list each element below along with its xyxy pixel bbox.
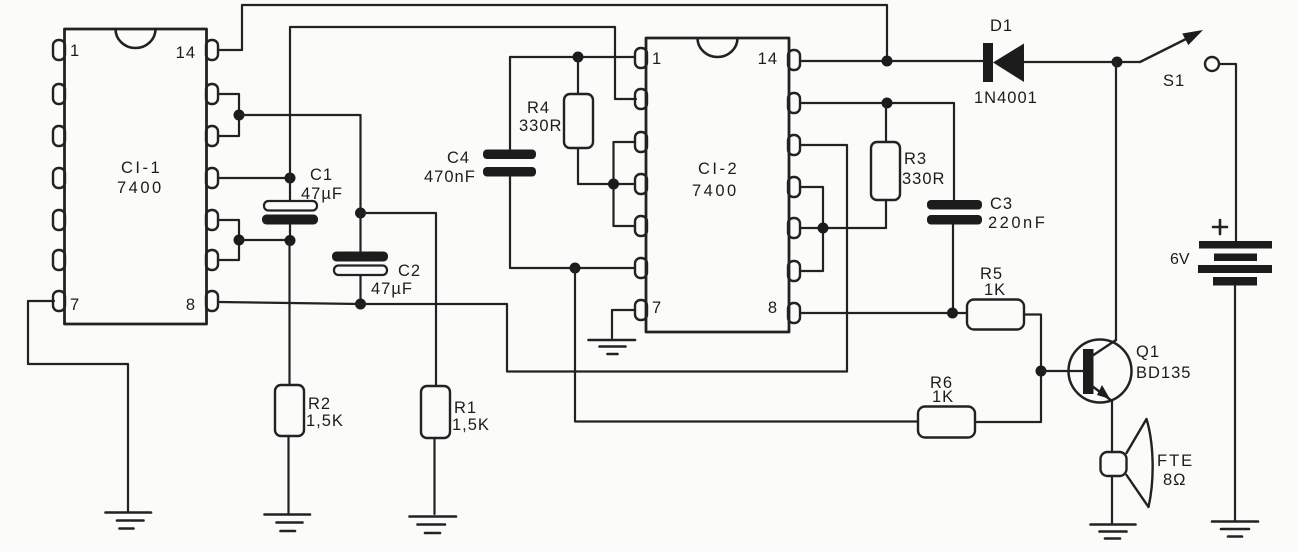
wire: C2 node right and down to R1 [361,213,437,386]
node: C2 top dot [355,208,366,219]
ground (battery) [1212,522,1258,537]
svg-text:330R: 330R [902,170,945,188]
wire: R3 top lead [885,103,887,142]
CI-2 pin 6 [635,258,647,278]
wire: R5 right to base node [1024,315,1041,372]
CI-2 pin 7 [635,300,647,320]
wire: battery to ground [1234,286,1236,522]
wire: C1 bottom down to R2 [288,241,290,385]
wire: CI-2 pin14 to rail [800,60,983,62]
svg-text:14: 14 [176,44,196,62]
IC CI-1 7400 [53,29,218,324]
CI-1 pin 7 [53,291,65,311]
svg-text:C4: C4 [447,149,470,167]
wire: CI-1 pin7 to ground [28,301,128,512]
node: pins10-9 junction dot [234,235,245,246]
wire: pins13-12 node to C2 top / R1 [239,115,361,213]
wire: CI-2 pin13 to C3 top [800,103,954,200]
svg-text:FTE: FTE [1157,452,1194,470]
wire: C4 bottom to CI-2 pin6 [510,176,635,268]
ground (speaker) [1091,525,1136,539]
wire: CI-2 pins 3-4-5 tie [614,142,636,226]
battery + mark [1213,220,1227,234]
svg-text:1: 1 [652,50,662,68]
svg-text:1N4001: 1N4001 [974,89,1038,107]
CI-2 pin 8 [788,303,800,323]
svg-text:220nF: 220nF [988,214,1047,232]
capacitor C1 (electrolytic) [262,201,318,225]
wire: R3 bottom to pins11-10-9 tie [823,200,886,228]
resistor R4 [564,94,593,148]
wire: speaker to ground [1111,476,1113,523]
node: collector rail dot [1112,57,1123,68]
wire: R6 right to base node [975,371,1041,422]
wire: pins10-9 node to C1 bottom [239,239,290,241]
svg-text:47µF: 47µF [301,185,343,203]
node: C2 bottom on pin8 line [355,299,366,310]
svg-text:1K: 1K [984,281,1006,299]
wire: C2 bottom lead [359,276,361,305]
ground (CI-1 pin7) [106,513,152,529]
CI-1 pin 13 [206,84,218,104]
speaker FTE 8ohm [1101,419,1153,507]
wire: CI-1 pins 13-12 tie [219,94,240,136]
CI-2 pin 13 [788,93,800,113]
wire: C4 top lead [509,57,511,150]
ground (R1) [410,517,457,534]
svg-text:R3: R3 [904,150,927,168]
IC CI-2 7400 [635,38,800,332]
battery 6V [1198,220,1272,286]
svg-text:8: 8 [768,299,778,317]
svg-text:1: 1 [70,42,80,60]
wire: R2 to ground [287,436,289,513]
ground (R2) [265,515,311,532]
node: Q1 base node dot [1036,366,1047,377]
node: C1 bottom dot [285,235,296,246]
resistor R3 [871,142,900,200]
CI-2 pin 2 [635,89,647,109]
CI-1 pin 2 [53,84,65,104]
CI-1 pin 8 [206,291,218,311]
svg-text:8: 8 [186,296,196,314]
svg-text:7: 7 [70,296,80,314]
svg-text:7400: 7400 [117,179,164,197]
ground (CI-2 pin7) [589,340,636,354]
resistor R1 [421,386,450,438]
wire: CI-1 pin11 to C1 top [219,177,291,179]
svg-text:R4: R4 [527,99,550,117]
svg-text:1,5K: 1,5K [306,412,344,430]
capacitor C4 [483,150,536,177]
svg-text:C1: C1 [310,166,333,184]
svg-text:BD135: BD135 [1136,364,1191,382]
CI-2 pin 4 [635,174,647,194]
CI-1 pin 12 [206,126,218,146]
svg-text:D1: D1 [990,17,1013,35]
svg-text:14: 14 [758,50,778,68]
CI-2 pin 1 [635,48,647,68]
CI-2 pin 10 [788,218,800,238]
wire: C1 node up to bus2 over to CI-2 pin2 [290,27,636,178]
wire: C4 top node to CI-2 pin1 [510,56,635,58]
CI-2 pin 14 [788,50,800,70]
svg-text:330R: 330R [519,117,562,135]
wire: pin6 node down to R6 [575,268,918,422]
CI-1 pin 1 [53,40,65,60]
CI-1 pin 4 [53,168,65,188]
node: C1 top dot [285,173,296,184]
svg-text:Q1: Q1 [1136,343,1160,361]
wire: R4 bottom to pins3-5 tie [578,148,614,184]
svg-text:6V: 6V [1170,251,1190,268]
svg-text:CI-2: CI-2 [698,160,739,178]
wire: C3 bottom lead [952,225,954,314]
node: pin10 junction dot [818,223,829,234]
CI-2 pin 9 [788,261,800,281]
wire: CI-1 pins 10-9 tie [219,220,240,260]
CI-1 pin 6 [53,250,65,270]
node: R4 top dot [573,52,584,63]
capacitor C3 [927,200,982,225]
svg-text:1,5K: 1,5K [452,416,490,434]
CI-2 pin 12 [788,135,800,155]
svg-text:C2: C2 [398,262,421,280]
wire: emitter down to speaker [1111,401,1113,452]
resistor R6 [918,407,975,438]
CI-1 pin 14 [206,40,218,60]
svg-text:1K: 1K [932,388,954,406]
node: pin6 junction dot [570,263,581,274]
node: rail/bus1 dot [882,56,893,67]
resistor R5 [967,300,1024,330]
CI-1 pin 3 [53,126,65,146]
CI-2 pin 11 [788,177,800,197]
wire: base node to Q1 base [1041,370,1083,372]
svg-text:C3: C3 [990,195,1013,213]
transistor Q1 BD135 [1069,340,1132,403]
wire: D1 to S1 node [1024,61,1140,63]
wire: CI-1 pin14 to top bus and +V rail [219,5,888,61]
CI-1 pin 5 [53,210,65,230]
wire: R4 top lead [577,57,579,94]
wire: C1 top lead [289,178,291,200]
CI-1 pin 11 [206,168,218,188]
node: pin13/R3 dot [882,98,893,109]
svg-text:R1: R1 [454,399,477,417]
wire: collector up to rail [1115,62,1117,340]
wire: R1 to ground [433,438,435,514]
CI-1 pin 9 [206,250,218,270]
node: pins13-12 junction dot [234,110,245,121]
node: pin4 junction dot [608,179,619,190]
svg-text:CI-1: CI-1 [121,159,162,177]
node: C3 bottom dot [947,308,958,319]
wire: CI-2 pin8 to R5 [800,312,967,314]
wire: CI-1 pin8 line + feedback to CI-2 pin12 [219,145,848,372]
wire: CI-2 pin7 to ground [612,310,635,338]
switch S1 [1140,30,1219,71]
capacitor C2 (electrolytic) [332,252,388,276]
CI-2 pin 3 [635,132,647,152]
resistor R2 [275,385,304,436]
svg-text:47µF: 47µF [371,280,413,298]
svg-text:R2: R2 [308,395,331,413]
diode D1 1N4001 [983,43,1024,82]
wire: S1 to battery [1219,64,1236,241]
wire: C1 bottom lead [289,224,291,241]
wire: C2 top lead [359,213,361,251]
CI-2 pin 5 [635,216,647,236]
wire: CI-2 pins 11-10-9 tie [800,187,823,271]
svg-text:7400: 7400 [692,182,739,200]
CI-1 pin 10 [206,210,218,230]
svg-text:7: 7 [652,299,662,317]
svg-text:S1: S1 [1163,72,1185,90]
svg-text:470nF: 470nF [424,168,476,186]
svg-text:8Ω: 8Ω [1163,471,1187,489]
